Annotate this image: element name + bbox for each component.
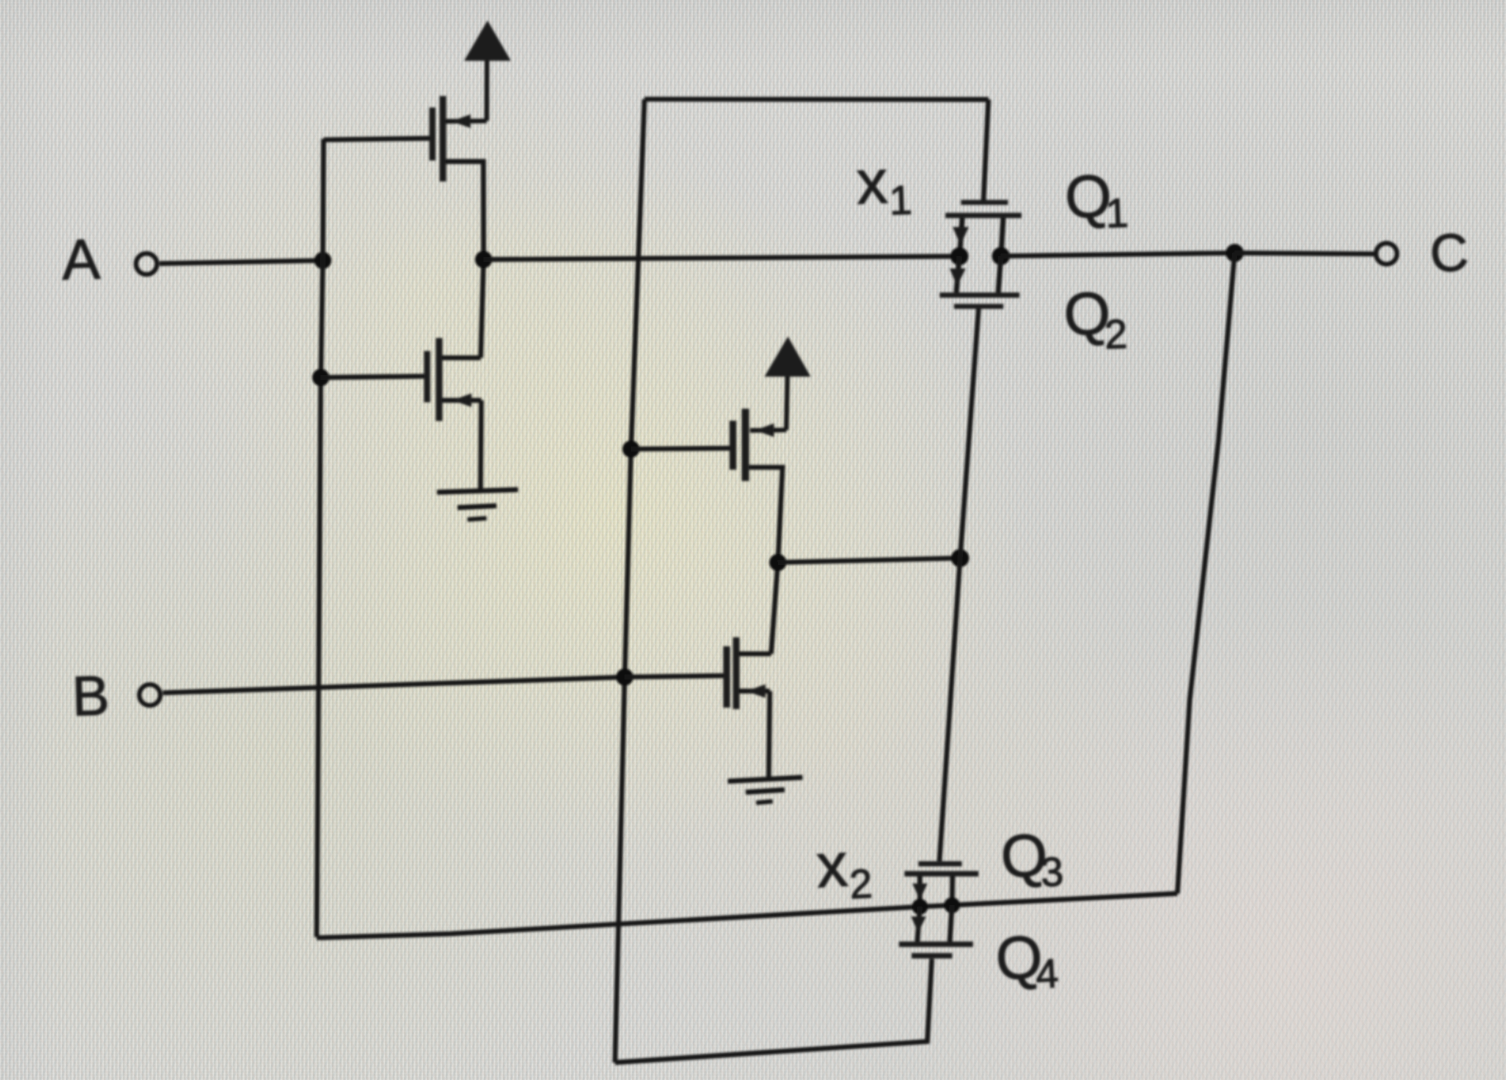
wire C junction to terminal C <box>1235 253 1375 254</box>
label Q1 <box>1064 162 1129 238</box>
wire Q3 left stub with arrow <box>912 877 927 907</box>
wire gate lead of PMOS M3 <box>631 446 731 452</box>
wire Q2 right stub <box>998 256 1001 292</box>
wire Q4 right stub <box>950 905 952 941</box>
wire B-box left edge <box>615 99 645 1062</box>
label Q3 <box>999 820 1065 897</box>
transistor Q1 (transmission gate X1 top) gate bar <box>961 200 1008 205</box>
node dot inverter-1 output on wire A' <box>475 251 492 268</box>
wire source stub NMOS M2 <box>442 393 481 407</box>
wire drain stub PMOS M1 / inverter-1 output <box>446 162 484 358</box>
ground (inverter 2) <box>728 777 803 802</box>
svg-text:2: 2 <box>848 860 873 907</box>
transistor Q2 (transmission gate X1 bottom) channel bar <box>940 293 1020 298</box>
svg-text:x: x <box>855 148 888 218</box>
wire drain stub NMOS M4 <box>739 651 771 656</box>
wire Q3 right stub <box>950 877 956 906</box>
transistor Q4 gate bar <box>912 953 953 959</box>
svg-text:4: 4 <box>1034 950 1059 997</box>
wire drain stub PMOS M3 / inverter-2 output <box>749 467 782 654</box>
wire gate lead of NMOS M4 <box>625 676 724 677</box>
wire gate lead of NMOS M2 <box>321 376 427 377</box>
transistor Q3 (transmission gate X2 top) gate bar <box>918 861 961 866</box>
wire source stub PMOS M1 <box>446 114 487 128</box>
wire Q2 gate control line down to Q3 <box>939 309 978 862</box>
wire inverter-2 output to TG control line <box>778 558 960 562</box>
label x2 <box>815 829 874 909</box>
wire X1 to C junction <box>1001 253 1235 256</box>
wire A' from inverter-1 output to transmission gate X1 <box>484 256 960 259</box>
transistor M1 (PMOS, inverter 1) <box>429 96 446 182</box>
wire drain stub NMOS M2 <box>442 355 481 360</box>
svg-text:2: 2 <box>1104 311 1128 358</box>
wire Q1 right stub <box>1001 218 1003 256</box>
node dot TG X1 left <box>950 247 968 265</box>
wire Q2 left stub with arrow <box>950 256 966 292</box>
transistor M3 (PMOS, inverter 2) <box>730 409 750 481</box>
VDD supply arrow (inverter 1) <box>464 21 511 121</box>
wire B to B-box edge <box>163 677 625 693</box>
svg-text:C: C <box>1428 223 1469 284</box>
wire C junction down to bottom rail <box>1177 253 1234 894</box>
label B <box>71 664 110 728</box>
svg-text:3: 3 <box>1039 848 1064 895</box>
wire bottom rail (left box bottom, through X2, up to C line) <box>317 894 1178 938</box>
wire A to gate bus <box>160 260 323 263</box>
label Q4 <box>994 922 1060 999</box>
node dot inverter-2 output <box>769 554 786 571</box>
input terminal A <box>136 253 157 274</box>
svg-text:1: 1 <box>888 177 912 224</box>
wire B-box top edge <box>645 97 989 102</box>
wire ground stem (inverter 1) <box>478 400 484 490</box>
label x1 <box>855 147 912 225</box>
transistor M4 (NMOS, inverter 2) <box>723 637 739 709</box>
node dot C junction <box>1226 244 1244 262</box>
node dot B-box edge / PMOS M3 gate <box>622 441 639 458</box>
input terminal B <box>139 685 160 706</box>
wire gate bus (left box left edge) <box>317 139 324 937</box>
svg-text:x: x <box>815 831 850 902</box>
svg-text:1: 1 <box>1105 190 1129 237</box>
node dot TG X1 right <box>992 247 1010 265</box>
transistor Q4 (transmission gate X2 bottom) channel bar <box>899 942 973 948</box>
node dot B / NMOS M4 gate <box>616 669 633 686</box>
node dot on TG control line <box>951 549 969 567</box>
wire ground stem (inverter 2) <box>769 691 770 779</box>
node dot TG X2 left <box>912 899 928 915</box>
transistor M2 (NMOS, inverter 1) <box>424 338 442 421</box>
output terminal C <box>1376 243 1397 264</box>
label C <box>1428 223 1469 284</box>
wire B-box bottom edge to Q4 gate <box>615 959 932 1063</box>
node dot A/gate-bus junction <box>314 252 331 269</box>
wire source stub PMOS M3 <box>750 423 786 437</box>
transistor Q1 channel bar <box>945 213 1021 218</box>
transistor Q3 channel bar <box>905 871 979 877</box>
svg-text:A: A <box>61 228 101 293</box>
ground (inverter 1) <box>437 490 518 520</box>
wire source stub NMOS M4 <box>739 684 770 698</box>
label Q2 <box>1063 279 1128 359</box>
svg-text:B: B <box>71 664 110 728</box>
node dot TG X2 right <box>944 897 960 913</box>
VDD supply arrow (inverter 2) <box>765 337 811 431</box>
label A <box>61 228 101 293</box>
wire Q1 left stub with arrow <box>953 218 969 256</box>
wire Q4 left stub with arrow <box>911 907 926 942</box>
transistor Q2 gate bar <box>954 304 1003 309</box>
node dot gate-bus / NMOS M2 gate <box>312 369 329 386</box>
wire gate lead of PMOS M1 <box>324 138 431 140</box>
wire B-box right edge to Q1 gate <box>984 100 989 201</box>
